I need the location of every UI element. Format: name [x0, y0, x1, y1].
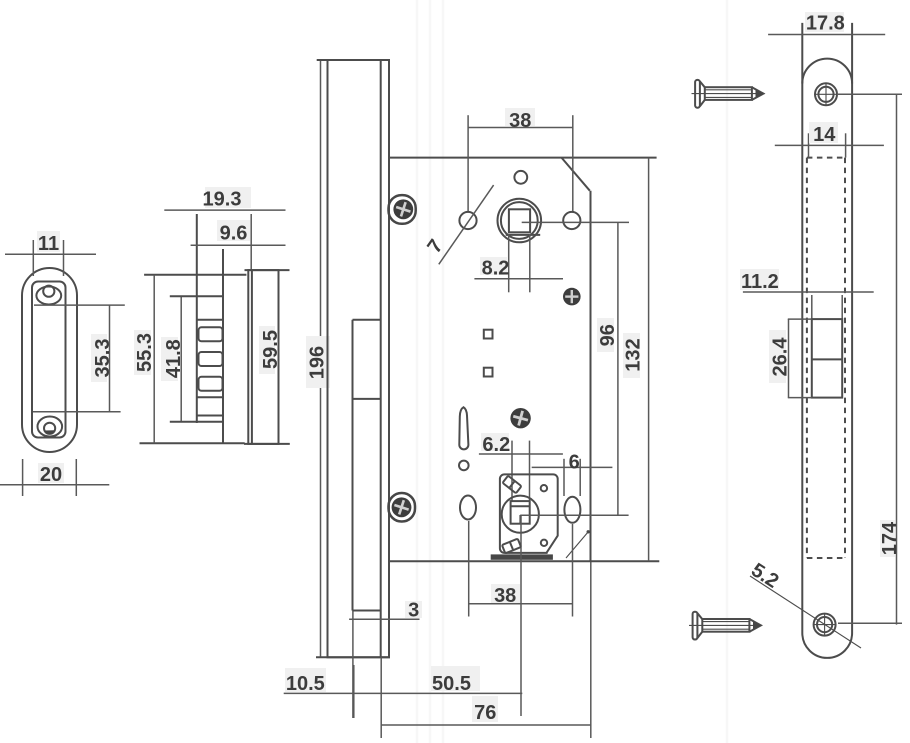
latch follower inner square line: [519, 515, 521, 524]
faceplate bottom edge overshoot: [316, 656, 390, 658]
top screw tab phillips head: [393, 199, 413, 219]
spindle outer circle: [498, 199, 542, 243]
extension line from bottom screw hole: [838, 622, 902, 624]
svg-text:20: 20: [40, 464, 62, 486]
angled stud bottom: [502, 539, 521, 554]
lock body bottom edge: [389, 560, 659, 562]
strike plate left side + 17.8 extension: [801, 23, 803, 633]
svg-text:174: 174: [879, 521, 901, 555]
svg-text:41.8: 41.8: [163, 339, 185, 378]
top screw hole outer circle: [815, 83, 837, 105]
left plate outer stadium outline: [22, 268, 77, 452]
comb small tooth 1: [199, 327, 223, 341]
faceplate side view outer rect: [248, 270, 278, 444]
dim 132 label: [623, 333, 640, 378]
bottom mounting screw: [689, 612, 762, 640]
latch small circle bottom: [541, 540, 547, 546]
dim 11.2 dimension line: [743, 291, 874, 293]
comb tooth B top rung: [197, 396, 224, 398]
top screw hole inner circle: [818, 87, 833, 102]
dim 14 dimension line: [775, 144, 884, 146]
dim 14 extension lines: [808, 133, 810, 157]
comb right vertical: [222, 249, 224, 443]
dim 6 dimension line: [532, 466, 613, 468]
strike opening box: [812, 319, 842, 398]
dim 19.3 dimension line: [164, 209, 285, 211]
svg-text:132: 132: [623, 338, 645, 371]
latch center extension line to 132 dim: [520, 514, 628, 516]
faceplate inner thickness line + lower extension line: [380, 60, 382, 657]
svg-text:14: 14: [813, 124, 836, 146]
small circle under teardrop: [459, 461, 469, 471]
scan artifact faint vertical bands: [417, 0, 727, 743]
dim 8.2 extension lines: [508, 234, 510, 292]
dim 38 bottom extension lines: [468, 521, 470, 617]
dim 76 label: [472, 696, 498, 722]
oval hole left: [460, 496, 476, 520]
dim 20 label: [38, 463, 64, 483]
svg-text:26.4: 26.4: [770, 337, 792, 377]
faceplate latch slot divider: [353, 398, 381, 400]
dim 35.3 dimension line: [109, 305, 111, 412]
faceplate side view inner line: [251, 270, 253, 444]
latch small circle top: [541, 485, 547, 491]
dim 174 label: [880, 520, 895, 557]
side view bottom edge: [140, 442, 245, 444]
dim 38 bottom dimension line: [469, 603, 573, 605]
dim 35.3 extension lines: [34, 304, 125, 306]
svg-text:10.5: 10.5: [286, 673, 325, 695]
screw tip cone: [752, 87, 764, 100]
strike plate top cap arc: [802, 59, 852, 84]
left plate bottom screw dark fill: [45, 430, 55, 434]
svg-text:55.3: 55.3: [134, 333, 156, 372]
comb small tooth 2: [199, 352, 223, 366]
svg-text:96: 96: [597, 324, 619, 346]
extension line from top screw hole: [837, 93, 902, 95]
dim 38 top dimension line: [468, 127, 573, 129]
dim 17.8 dimension line: [768, 34, 885, 36]
dim 11 extension ticks: [32, 240, 34, 276]
angled stud top: [503, 476, 522, 494]
top mounting screw: [692, 80, 765, 108]
screw tip dark fill: [756, 89, 764, 98]
svg-text:3: 3: [408, 600, 419, 622]
lock body right edge + extension down to 76 dim: [590, 191, 592, 562]
dim 38 top extension lines: [467, 115, 469, 211]
left plate bottom screw countersink ellipse: [38, 417, 63, 437]
svg-text:6.2: 6.2: [482, 434, 510, 456]
dim 10.5 tick: [353, 665, 355, 718]
svg-text:11.2: 11.2: [741, 271, 779, 293]
faceplate front view outline: [328, 60, 390, 657]
phillips screw right: [563, 288, 581, 306]
spindle square hole: [509, 209, 530, 232]
latch center extension line down to 50.5 dim: [520, 515, 522, 716]
small circle above spindle: [514, 171, 527, 184]
lock body top right corner cut: [562, 158, 590, 191]
dim 20 dimension line: [0, 484, 109, 486]
svg-text:196: 196: [307, 346, 329, 379]
bottom screw hole inner circle: [817, 617, 832, 632]
faceplate latch slot top edge: [353, 319, 381, 321]
faceplate latch slot left edge + extension down: [352, 320, 354, 611]
dim 26.4 dimension line: [788, 319, 790, 398]
svg-text:17.8: 17.8: [806, 13, 845, 35]
dim 10.5 / 50.5 dimension line: [284, 692, 523, 694]
comb rung lower extension: [170, 421, 224, 423]
dim 6.2 dimension line: [479, 453, 563, 455]
faceplate side view bottom edge overshoot: [244, 443, 290, 445]
dim 11 label: [37, 231, 60, 252]
comb left vertical: [196, 214, 198, 423]
dim 38 top label: [505, 108, 535, 126]
dim 9.6 dimension line: [191, 244, 286, 246]
strike opening extension lines left: [788, 318, 812, 320]
comb tooth B bottom rung: [197, 415, 224, 417]
faceplate side view extension line upper: [250, 214, 252, 270]
dim 8.2 dimension line: [474, 278, 563, 280]
faceplate side view top edge overshoot: [245, 269, 290, 271]
faceplate top edge overshoot: [317, 59, 389, 61]
faceplate latch slot bottom edge: [353, 610, 381, 612]
spindle inner circle: [501, 202, 538, 239]
dim 11.2 extension lines: [811, 295, 813, 319]
leader line for 5.2: [750, 576, 861, 648]
comb tooth A bottom rung: [197, 319, 224, 321]
oval hole right: [564, 497, 580, 523]
top screw tab: [389, 195, 416, 224]
svg-text:38: 38: [494, 585, 516, 607]
latch base plate dark bar: [491, 554, 553, 559]
latch assembly outline: [500, 474, 558, 553]
spindle center extension line to 96 dim: [522, 221, 629, 223]
latch follower top bar: [511, 505, 529, 507]
dim 6 extension lines: [563, 459, 565, 496]
strike opening divider: [812, 358, 842, 360]
strike plate right side + 17.8 extension: [851, 23, 853, 633]
dim 11 dimension line: [5, 253, 96, 255]
screw head taper: [700, 81, 705, 106]
svg-text:59.5: 59.5: [260, 330, 282, 369]
strike plate bottom cap arc: [802, 633, 852, 658]
dim 76 dimension line: [381, 724, 591, 726]
chamfer leader line: [566, 532, 589, 559]
top screw hole cross: [815, 93, 837, 95]
dim 26.4 label: [769, 330, 786, 383]
bottom screw hole cross: [814, 624, 836, 626]
dim 3 dimension line: [349, 618, 419, 620]
dim 35.3 label: [91, 334, 107, 382]
teardrop slot: [459, 407, 468, 449]
svg-text:76: 76: [474, 702, 496, 724]
svg-text:19.3: 19.3: [203, 189, 242, 211]
dim 3 label: [405, 601, 422, 618]
dim 41.8 dimension line: [180, 296, 182, 421]
bottom screw tab phillips head: [392, 497, 412, 517]
left plate top screw hole circle: [43, 286, 54, 297]
strike plate dashed hidden rectangle: [807, 158, 845, 558]
screw shaft: [705, 87, 752, 100]
dim 196 dimension line: [320, 60, 322, 657]
svg-text:35.3: 35.3: [92, 339, 114, 378]
dim 8.2 label: [480, 257, 507, 275]
side view top edge: [144, 274, 246, 276]
comb small tooth 3: [199, 377, 223, 391]
dim 196 label: [306, 336, 330, 388]
svg-text:11: 11: [38, 233, 59, 255]
lock body top edge with extension to 132 dim: [389, 157, 657, 159]
dim 20 extension ticks: [22, 459, 24, 496]
dim 96 label: [597, 318, 614, 352]
left plate inner rounded rectangle: [32, 282, 66, 438]
screw shaft inner lines: [705, 89, 752, 91]
dim 55.3 label: [134, 330, 151, 375]
screw axis line: [692, 93, 765, 95]
svg-text:8.2: 8.2: [482, 258, 510, 280]
dim 14 label: [809, 122, 838, 143]
dim 38 bottom label: [491, 584, 520, 603]
latch follower square: [511, 501, 530, 524]
dim 6.2 extension lines: [511, 441, 513, 501]
svg-text:50.5: 50.5: [432, 673, 471, 695]
bottom screw tab: [389, 493, 416, 522]
dim 50.5 label: [431, 666, 480, 691]
dim 132 dimension line: [648, 158, 650, 562]
comb rung upper extension: [170, 295, 224, 297]
phillips screw center: [510, 408, 530, 428]
dim 11.2 label: [740, 269, 779, 290]
right handle hole: [563, 212, 580, 229]
dim 9.6 label: [217, 220, 250, 241]
latch follower circle: [502, 496, 539, 533]
svg-text:9.6: 9.6: [220, 223, 248, 245]
left plate bottom screw hole circle: [44, 423, 55, 434]
small square hole 1: [484, 330, 493, 339]
small square hole 2: [484, 368, 493, 377]
bottom screw hole outer circle: [814, 614, 836, 636]
dim 19.3 label: [205, 187, 251, 208]
dim 10.5 label: [285, 668, 326, 692]
dim 6.2 label: [481, 433, 509, 451]
leader line for 7: [439, 185, 494, 264]
dim 55.3 dimension line / left edge: [153, 275, 155, 444]
svg-text:38: 38: [509, 110, 531, 132]
dim 96 dimension line: [617, 222, 619, 515]
screw head bar: [695, 80, 700, 108]
dim 17.8 label: [805, 12, 844, 32]
dim 59.5 label: [259, 326, 275, 374]
left handle hole: [459, 212, 476, 229]
left plate top screw countersink ellipse: [36, 287, 61, 305]
dim 174 dimension line: [896, 94, 898, 624]
dim 41.8 label: [161, 337, 178, 381]
svg-text:6: 6: [569, 452, 580, 474]
